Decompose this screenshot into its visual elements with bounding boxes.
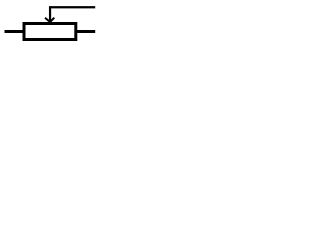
wire wiper lead: [50, 7, 95, 21]
wiper arrow head: [45, 18, 54, 22]
resistor body (potentiometer R1): [24, 24, 76, 40]
wire left terminal: [5, 30, 25, 33]
wire right terminal: [76, 30, 95, 33]
